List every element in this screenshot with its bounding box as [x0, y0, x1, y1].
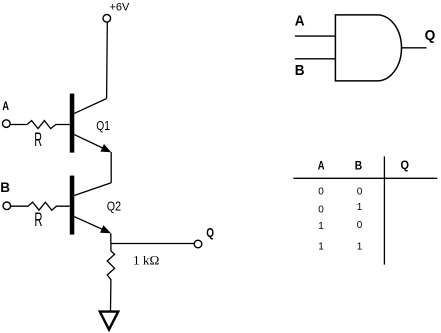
AND gate U1 body	[335, 15, 401, 81]
svg-text:Q: Q	[425, 27, 436, 44]
terminal input A	[3, 120, 11, 128]
svg-text:B: B	[355, 160, 362, 172]
svg-text:Q: Q	[401, 160, 410, 172]
svg-text:1: 1	[318, 242, 324, 253]
svg-text:Q: Q	[206, 225, 214, 240]
terminal +6V	[103, 14, 111, 22]
transistor Q1 base bar	[70, 94, 75, 153]
resistor R (input B)	[11, 202, 70, 210]
wire +6V to Q1 collector	[106, 23, 109, 99]
svg-text:0: 0	[357, 220, 363, 231]
svg-text:Q2: Q2	[107, 200, 121, 214]
svg-text:B: B	[0, 180, 10, 195]
ground	[100, 312, 118, 330]
resistor 1 kOhm	[107, 244, 114, 312]
transistor Q1 emitter with arrow	[74, 134, 112, 152]
wire Q1 collector lead	[74, 99, 107, 114]
svg-text:Q1: Q1	[96, 119, 110, 133]
gate output wire	[402, 47, 427, 49]
gate input A wire	[295, 35, 336, 37]
transistor Q2 base bar	[70, 176, 75, 235]
truth table column divider	[383, 156, 385, 264]
truth table header rule	[293, 177, 437, 179]
svg-text:A: A	[318, 160, 325, 172]
wire output node to terminal Q	[111, 243, 194, 245]
svg-text:B: B	[295, 63, 305, 79]
svg-text:1: 1	[318, 221, 324, 232]
svg-text:0: 0	[357, 186, 363, 197]
svg-text:R: R	[34, 129, 42, 151]
svg-text:0: 0	[318, 204, 324, 215]
svg-text:+6V: +6V	[110, 2, 131, 14]
svg-text:A: A	[295, 13, 305, 29]
svg-text:R: R	[34, 209, 42, 231]
wire Q1 emitter to Q2 collector	[110, 152, 112, 183]
wire Q2 collector lead	[74, 183, 112, 196]
gate input B wire	[295, 58, 336, 60]
svg-text:0: 0	[318, 186, 324, 197]
svg-text:1: 1	[357, 202, 363, 213]
resistor R (input A)	[10, 121, 70, 129]
wire Q2 emitter to output node	[110, 233, 112, 243]
terminal input B	[3, 202, 11, 210]
transistor Q2 emitter with arrow	[74, 216, 111, 233]
terminal output Q	[194, 240, 202, 248]
svg-text:1: 1	[357, 242, 363, 253]
svg-text:A: A	[2, 101, 9, 113]
svg-text:1 kΩ: 1 kΩ	[133, 253, 159, 268]
